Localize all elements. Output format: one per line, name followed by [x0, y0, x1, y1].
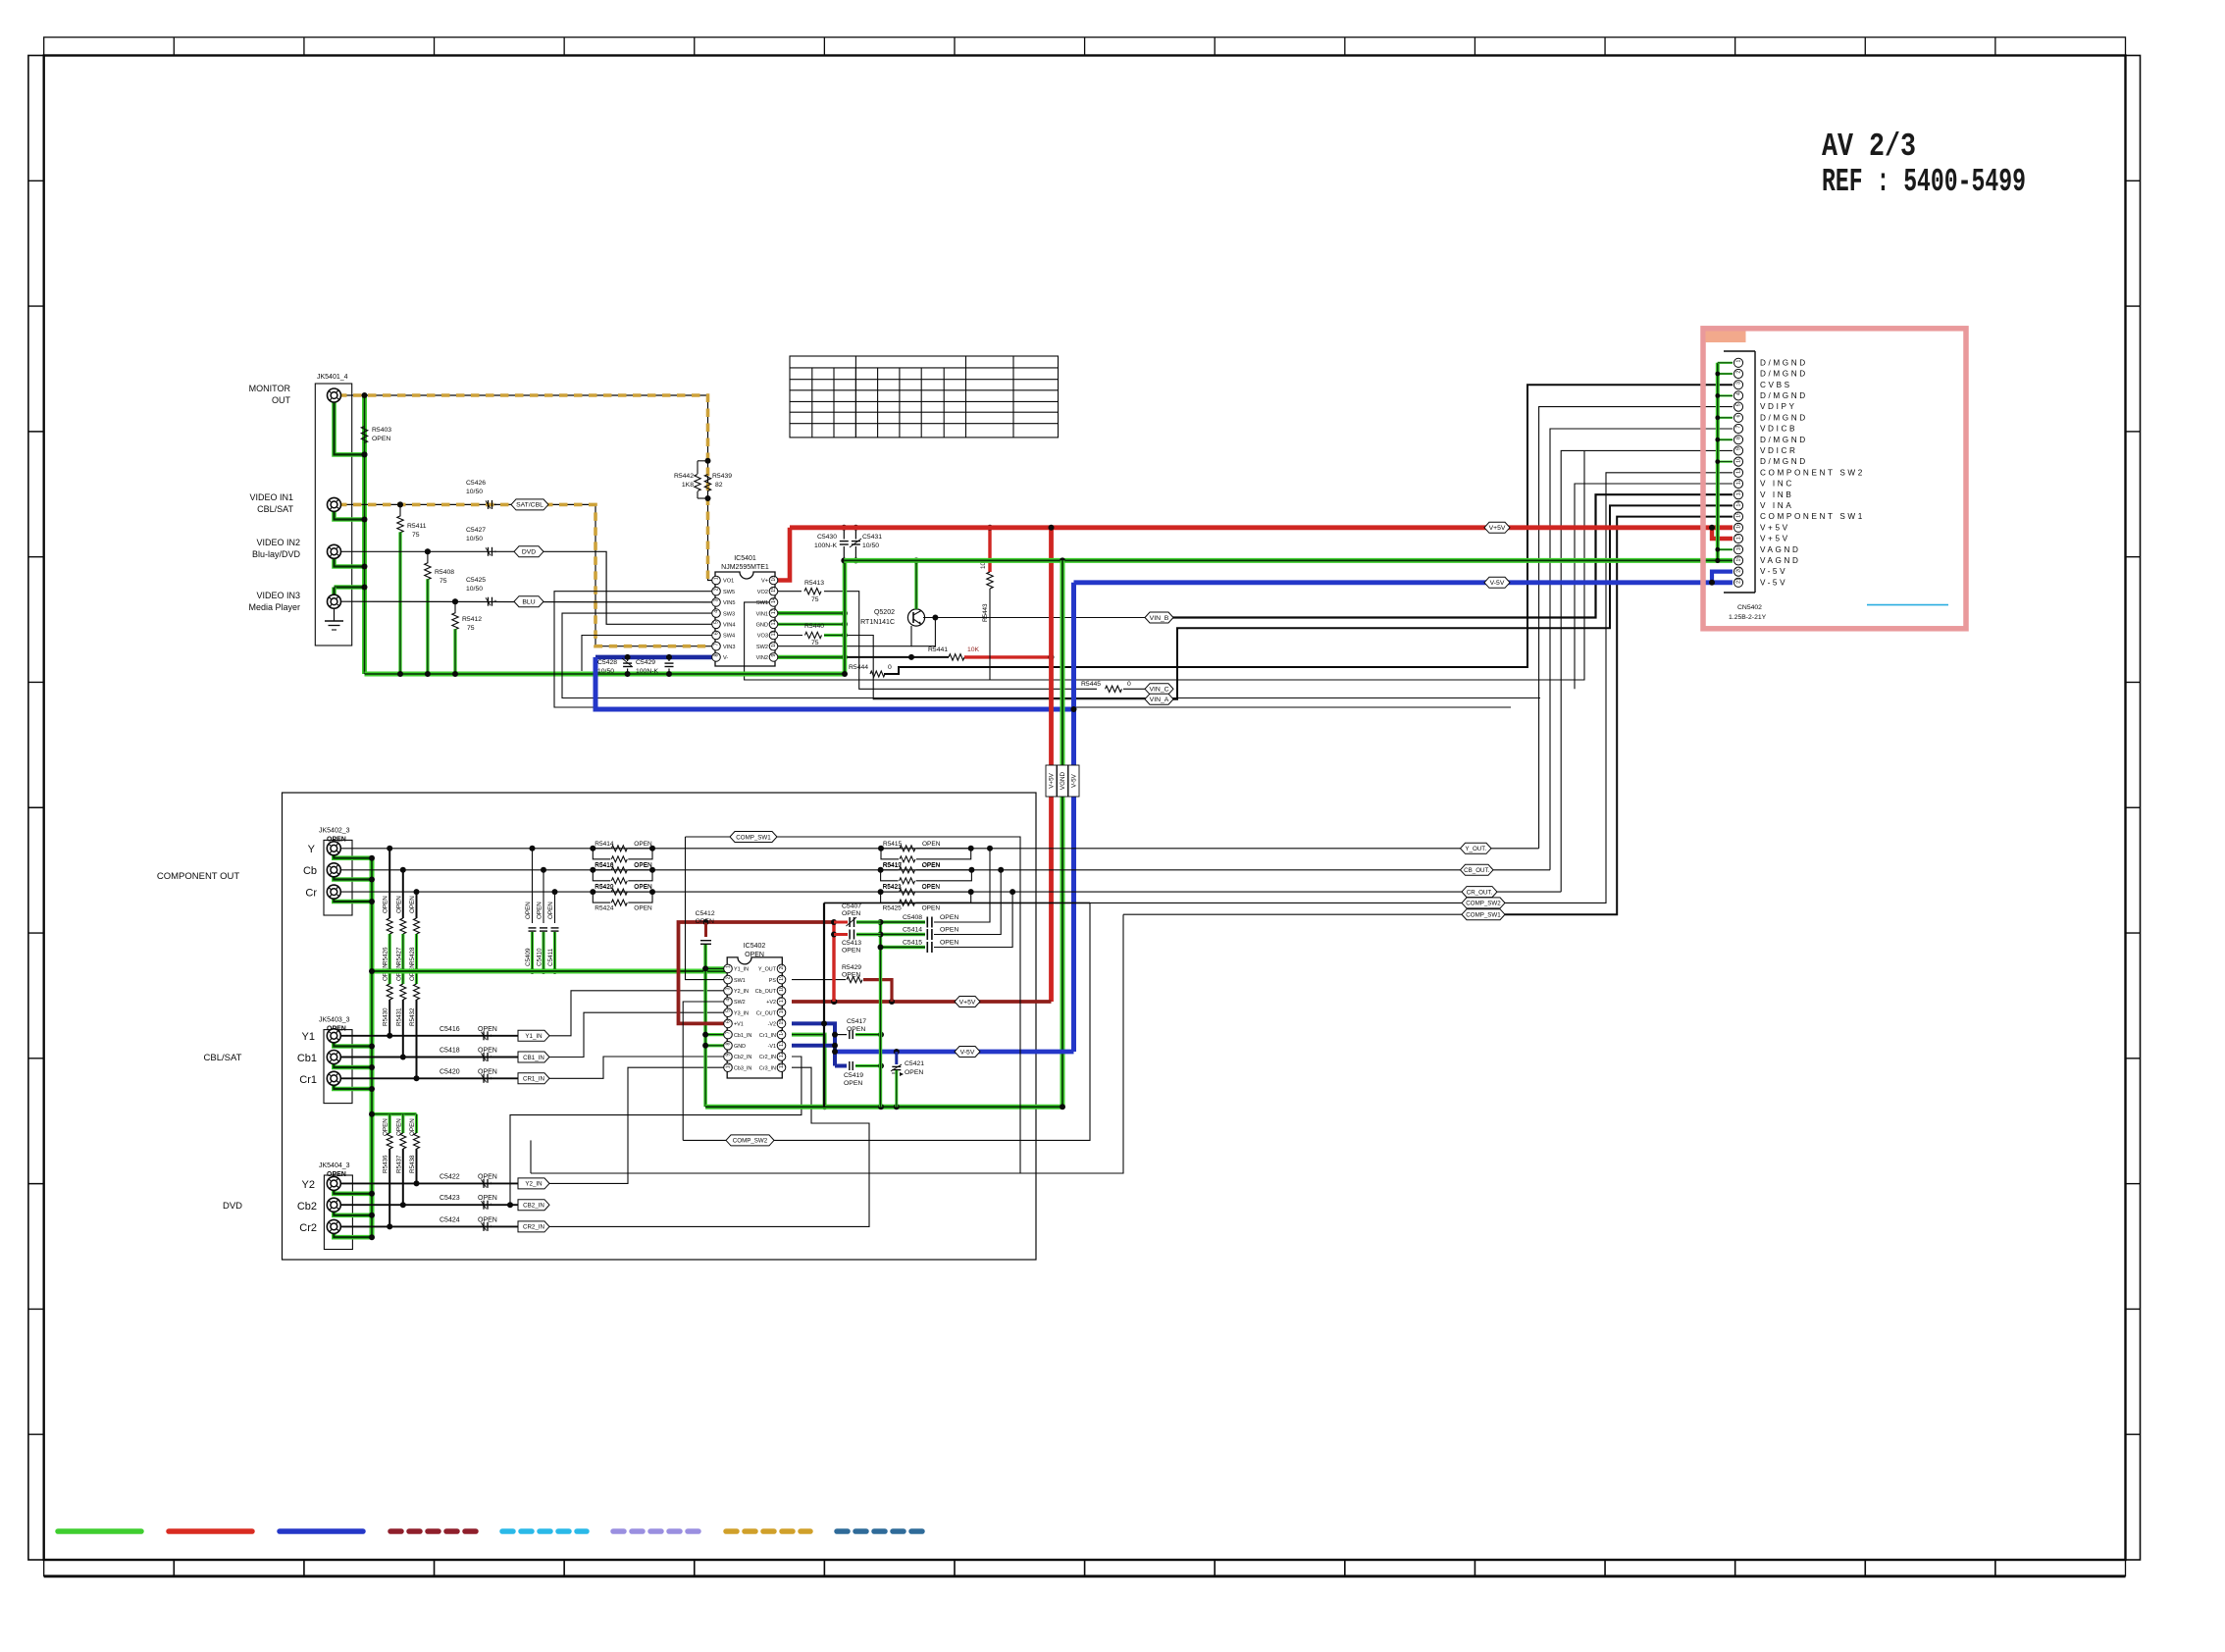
- svg-text:COMPONENT SW1: COMPONENT SW1: [1760, 512, 1865, 521]
- svg-text:Y2_IN: Y2_IN: [734, 989, 749, 995]
- svg-text:CVBS: CVBS: [1760, 381, 1792, 389]
- svg-text:14: 14: [1736, 501, 1742, 507]
- svg-text:RT1N141C: RT1N141C: [860, 619, 895, 626]
- svg-text:10/50: 10/50: [597, 668, 614, 675]
- svg-text:VO1: VO1: [723, 579, 734, 585]
- svg-text:COMP_SW2: COMP_SW2: [733, 1138, 768, 1145]
- svg-text:Cb_OUT: Cb_OUT: [755, 989, 777, 995]
- svg-text:Y: Y: [308, 844, 316, 855]
- svg-text:C5427: C5427: [466, 527, 486, 534]
- svg-text:V INC: V INC: [1760, 480, 1794, 489]
- svg-text:C5431: C5431: [862, 534, 882, 541]
- svg-text:R5441: R5441: [928, 646, 948, 653]
- svg-text:D/MGND: D/MGND: [1760, 358, 1808, 367]
- svg-text:C5429: C5429: [636, 659, 655, 666]
- svg-text:R5426: R5426: [383, 947, 389, 965]
- svg-text:18: 18: [779, 986, 785, 992]
- svg-text:OPEN: OPEN: [696, 918, 714, 925]
- svg-text:75: 75: [467, 625, 475, 632]
- svg-text:VDICB: VDICB: [1760, 425, 1797, 434]
- svg-text:C5413: C5413: [842, 940, 861, 947]
- svg-text:COMP_SW1: COMP_SW1: [736, 834, 771, 841]
- svg-text:-V2: -V2: [768, 1022, 776, 1028]
- svg-text:COMPONENT OUT: COMPONENT OUT: [157, 871, 239, 882]
- svg-text:1: 1: [714, 577, 720, 580]
- svg-text:C5419: C5419: [844, 1072, 863, 1079]
- svg-text:V+5V: V+5V: [1049, 772, 1056, 788]
- svg-text:8: 8: [1736, 437, 1742, 439]
- svg-text:16: 16: [1736, 523, 1742, 529]
- svg-text:Cr1_IN: Cr1_IN: [759, 1033, 776, 1039]
- svg-text:+: +: [490, 1033, 492, 1039]
- svg-text:C5417: C5417: [847, 1018, 866, 1025]
- svg-text:4: 4: [726, 999, 732, 1002]
- svg-text:C5426: C5426: [466, 480, 486, 487]
- svg-text:+: +: [490, 1224, 492, 1230]
- svg-text:+: +: [494, 549, 497, 555]
- svg-text:OUT: OUT: [272, 395, 291, 405]
- svg-text:OPEN: OPEN: [478, 1068, 497, 1075]
- svg-text:20: 20: [779, 964, 785, 970]
- svg-text:OPEN: OPEN: [922, 841, 941, 848]
- svg-text:OPEN: OPEN: [537, 902, 543, 919]
- svg-text:OPEN: OPEN: [634, 884, 652, 891]
- svg-text:Cr2_IN: Cr2_IN: [759, 1055, 776, 1060]
- svg-text:15: 15: [779, 1019, 785, 1025]
- svg-text:C5430: C5430: [817, 534, 837, 541]
- svg-text:CN5402: CN5402: [1737, 604, 1762, 611]
- svg-text:OPEN: OPEN: [395, 896, 402, 913]
- svg-text:OPEN: OPEN: [842, 948, 860, 955]
- svg-text:10: 10: [726, 1062, 732, 1068]
- svg-text:CR_OUT.: CR_OUT.: [1467, 889, 1493, 896]
- svg-text:1: 1: [726, 965, 732, 968]
- svg-text:VIDEO IN2: VIDEO IN2: [256, 538, 300, 547]
- svg-text:15: 15: [771, 587, 777, 593]
- svg-text:+V2: +V2: [766, 1000, 776, 1006]
- svg-text:R5429: R5429: [842, 964, 861, 971]
- svg-text:JK5401_4: JK5401_4: [317, 374, 348, 381]
- svg-text:100N-K: 100N-K: [636, 668, 659, 675]
- svg-text:C5428: C5428: [597, 659, 617, 666]
- svg-text:Cr: Cr: [305, 888, 317, 900]
- svg-text:JK5403_3: JK5403_3: [319, 1017, 350, 1024]
- svg-text:10: 10: [771, 642, 777, 647]
- svg-text:OPEN: OPEN: [634, 905, 652, 912]
- svg-text:Y2: Y2: [302, 1179, 315, 1191]
- svg-text:+: +: [490, 1203, 492, 1209]
- svg-text:4: 4: [1736, 392, 1742, 395]
- svg-text:Cb2: Cb2: [297, 1201, 317, 1213]
- svg-text:R5444: R5444: [849, 664, 868, 671]
- svg-text:C5412: C5412: [696, 910, 715, 917]
- svg-text:VO2: VO2: [757, 590, 768, 595]
- svg-text:+: +: [494, 599, 497, 605]
- svg-text:9: 9: [726, 1054, 732, 1057]
- svg-text:+: +: [490, 1181, 492, 1187]
- svg-text:V-5V: V-5V: [1490, 580, 1505, 587]
- svg-text:R5413: R5413: [804, 580, 824, 587]
- svg-text:R5439: R5439: [712, 473, 732, 480]
- svg-text:+: +: [490, 1076, 492, 1082]
- svg-text:IC5401: IC5401: [734, 555, 756, 562]
- svg-text:CB1_IN: CB1_IN: [523, 1055, 544, 1061]
- svg-text:C5414: C5414: [903, 927, 922, 934]
- svg-text:C5424: C5424: [440, 1216, 460, 1223]
- svg-text:D/MGND: D/MGND: [1760, 370, 1808, 379]
- svg-text:1.25B-2-21Y: 1.25B-2-21Y: [1729, 614, 1767, 621]
- svg-text:VIN3: VIN3: [723, 645, 735, 650]
- svg-text:SAT/CBL: SAT/CBL: [516, 502, 543, 509]
- svg-text:16: 16: [771, 576, 777, 582]
- svg-text:R5431: R5431: [395, 1007, 402, 1026]
- svg-text:75: 75: [440, 578, 447, 585]
- svg-text:0: 0: [888, 664, 892, 671]
- svg-text:12: 12: [771, 620, 777, 626]
- svg-text:Q5202: Q5202: [874, 609, 895, 616]
- svg-text:10: 10: [1736, 457, 1742, 463]
- svg-text:R5424: R5424: [595, 905, 614, 912]
- svg-text:VAGND: VAGND: [1760, 545, 1801, 554]
- svg-text:11: 11: [771, 631, 777, 636]
- svg-text:JK5402_3: JK5402_3: [319, 828, 350, 835]
- svg-text:Cb: Cb: [303, 865, 317, 877]
- svg-text:COMP_SW1: COMP_SW1: [1466, 912, 1501, 919]
- svg-text:C5421: C5421: [905, 1060, 924, 1067]
- svg-text:R5414: R5414: [595, 841, 614, 848]
- svg-text:Cr_OUT: Cr_OUT: [756, 1010, 777, 1016]
- svg-text:C5425: C5425: [466, 577, 486, 584]
- svg-text:OPEN: OPEN: [525, 902, 532, 919]
- svg-text:OPEN: OPEN: [634, 862, 652, 869]
- svg-text:VIDEO IN3: VIDEO IN3: [256, 591, 300, 600]
- svg-text:OPEN: OPEN: [478, 1216, 497, 1223]
- svg-text:SW1: SW1: [756, 600, 768, 606]
- svg-text:7: 7: [1736, 426, 1742, 429]
- svg-text:NJM2595MTE1: NJM2595MTE1: [721, 564, 769, 571]
- svg-text:R5415: R5415: [883, 841, 903, 848]
- svg-text:VIN_A: VIN_A: [1150, 697, 1169, 703]
- svg-text:82: 82: [715, 482, 723, 489]
- svg-text:CBL/SAT: CBL/SAT: [204, 1053, 242, 1063]
- svg-text:R5419: R5419: [883, 862, 903, 869]
- svg-text:14: 14: [771, 597, 777, 603]
- svg-text:R5425: R5425: [883, 905, 903, 912]
- svg-text:R5437: R5437: [395, 1155, 402, 1173]
- svg-text:SW1: SW1: [734, 978, 746, 984]
- svg-text:C5416: C5416: [440, 1026, 460, 1033]
- svg-text:SW5: SW5: [723, 590, 735, 595]
- svg-text:R5445: R5445: [1081, 681, 1101, 688]
- svg-text:D/MGND: D/MGND: [1760, 391, 1808, 400]
- svg-text:VIN5: VIN5: [723, 600, 735, 606]
- svg-text:C5418: C5418: [440, 1048, 460, 1055]
- svg-text:GND: GND: [734, 1044, 746, 1050]
- svg-text:2: 2: [714, 588, 720, 591]
- svg-text:CB_OUT.: CB_OUT.: [1464, 867, 1489, 874]
- svg-text:17: 17: [1736, 534, 1742, 540]
- svg-text:3: 3: [726, 987, 732, 990]
- svg-text:SW3: SW3: [723, 611, 735, 617]
- svg-text:OPEN: OPEN: [745, 952, 764, 958]
- svg-text:+V1: +V1: [734, 1022, 744, 1028]
- svg-text:+: +: [494, 502, 497, 508]
- svg-text:2: 2: [1736, 371, 1742, 374]
- svg-text:9: 9: [1736, 447, 1742, 450]
- svg-text:OPEN: OPEN: [940, 914, 958, 921]
- svg-text:V+5V: V+5V: [1489, 525, 1506, 532]
- svg-text:21: 21: [1736, 578, 1742, 584]
- svg-text:OPEN: OPEN: [547, 902, 554, 919]
- svg-text:OPEN: OPEN: [478, 1195, 497, 1202]
- svg-text:CB2_IN: CB2_IN: [523, 1203, 544, 1210]
- svg-text:C5422: C5422: [440, 1173, 460, 1180]
- svg-text:Blu-lay/DVD: Blu-lay/DVD: [252, 549, 301, 559]
- svg-text:V-5V: V-5V: [960, 1049, 975, 1056]
- svg-text:Y3_IN: Y3_IN: [734, 1010, 749, 1016]
- svg-text:6: 6: [1736, 414, 1742, 417]
- svg-text:CR1_IN: CR1_IN: [523, 1076, 544, 1083]
- svg-text:V-5V: V-5V: [1760, 567, 1787, 576]
- svg-text:D/MGND: D/MGND: [1760, 436, 1808, 444]
- svg-text:OPEN: OPEN: [634, 841, 652, 848]
- svg-text:R5412: R5412: [462, 616, 482, 623]
- svg-text:R5422: R5422: [595, 884, 614, 891]
- svg-text:5: 5: [726, 1009, 732, 1012]
- svg-text:R5430: R5430: [383, 1007, 389, 1026]
- svg-text:16: 16: [779, 1007, 785, 1013]
- svg-text:1: 1: [1736, 359, 1742, 362]
- svg-text:VO3: VO3: [757, 634, 768, 640]
- svg-text:Y_OUT: Y_OUT: [758, 967, 777, 973]
- svg-text:Media Player: Media Player: [248, 602, 300, 612]
- svg-text:V-: V-: [723, 655, 728, 661]
- svg-text:Cr1: Cr1: [299, 1074, 317, 1086]
- svg-text:R5442: R5442: [674, 473, 694, 480]
- svg-text:11: 11: [1736, 468, 1742, 473]
- svg-text:Cb1_IN: Cb1_IN: [734, 1033, 751, 1039]
- svg-text:OPEN: OPEN: [372, 436, 390, 442]
- svg-text:VIN4: VIN4: [723, 623, 735, 629]
- svg-text:OPEN: OPEN: [478, 1048, 497, 1055]
- svg-text:SW2: SW2: [756, 645, 768, 650]
- svg-text:OPEN: OPEN: [478, 1026, 497, 1033]
- svg-text:OPEN: OPEN: [922, 884, 941, 891]
- svg-text:R5432: R5432: [409, 1007, 416, 1026]
- svg-text:12: 12: [779, 1052, 785, 1058]
- svg-text:OPEN: OPEN: [940, 927, 958, 934]
- svg-text:BLU: BLU: [522, 599, 535, 606]
- svg-text:AV 2/3: AV 2/3: [1822, 129, 1916, 165]
- svg-text:C5409: C5409: [525, 948, 532, 966]
- svg-text:Cb3_IN: Cb3_IN: [734, 1065, 751, 1071]
- svg-text:OPEN: OPEN: [383, 896, 389, 913]
- svg-text:3: 3: [714, 599, 720, 602]
- svg-text:19: 19: [1736, 556, 1742, 562]
- svg-text:C5415: C5415: [903, 940, 922, 947]
- svg-text:OPEN: OPEN: [842, 910, 860, 917]
- svg-text:Cb2_IN: Cb2_IN: [734, 1055, 751, 1060]
- svg-text:VAGND: VAGND: [1760, 556, 1801, 565]
- svg-text:11: 11: [779, 1063, 785, 1068]
- svg-text:Y1_IN: Y1_IN: [734, 967, 749, 973]
- svg-text:Cb1: Cb1: [297, 1053, 317, 1064]
- svg-text:13: 13: [771, 608, 777, 614]
- svg-text:SW2: SW2: [734, 1000, 746, 1006]
- svg-text:OPEN: OPEN: [940, 940, 958, 947]
- svg-text:6: 6: [726, 1020, 732, 1023]
- svg-text:9: 9: [771, 654, 777, 657]
- svg-text:C5411: C5411: [547, 948, 554, 966]
- svg-text:R5418: R5418: [595, 862, 614, 869]
- svg-text:0: 0: [1127, 681, 1131, 688]
- svg-text:R5438: R5438: [409, 1155, 416, 1173]
- svg-text:VDIPY: VDIPY: [1760, 402, 1797, 411]
- svg-text:10/50: 10/50: [466, 536, 483, 542]
- svg-text:15: 15: [1736, 512, 1742, 518]
- svg-text:R5443: R5443: [982, 603, 989, 622]
- svg-text:V+: V+: [761, 579, 768, 585]
- svg-text:1K8: 1K8: [682, 482, 694, 489]
- svg-text:3: 3: [1736, 382, 1742, 385]
- svg-text:8: 8: [714, 654, 720, 657]
- svg-text:10/50: 10/50: [466, 489, 483, 495]
- svg-text:OPEN: OPEN: [905, 1069, 923, 1076]
- svg-text:SW4: SW4: [723, 634, 735, 640]
- svg-text:CBL/SAT: CBL/SAT: [257, 504, 293, 514]
- svg-text:OPEN: OPEN: [922, 862, 941, 869]
- svg-text:V INA: V INA: [1760, 501, 1793, 510]
- svg-text:C5408: C5408: [903, 914, 922, 921]
- svg-text:MONITOR: MONITOR: [249, 384, 291, 393]
- svg-text:V-5V: V-5V: [1071, 773, 1078, 787]
- svg-text:OPEN: OPEN: [478, 1173, 497, 1180]
- svg-text:V-5V: V-5V: [1760, 578, 1787, 587]
- svg-text:CR2_IN: CR2_IN: [523, 1224, 544, 1231]
- svg-text:Cr3_IN: Cr3_IN: [759, 1065, 776, 1071]
- svg-text:VDICR: VDICR: [1760, 446, 1797, 455]
- svg-text:C5420: C5420: [440, 1068, 460, 1075]
- svg-text:19: 19: [779, 975, 785, 981]
- svg-text:OPEN: OPEN: [842, 972, 860, 979]
- svg-text:Y2_IN: Y2_IN: [525, 1181, 542, 1188]
- svg-text:R5408: R5408: [435, 569, 454, 576]
- svg-text:8: 8: [726, 1042, 732, 1045]
- svg-text:V+5V: V+5V: [1760, 523, 1790, 532]
- svg-text:IC5402: IC5402: [744, 943, 766, 950]
- svg-text:DVD: DVD: [223, 1201, 242, 1212]
- svg-text:Y_OUT.: Y_OUT.: [1465, 846, 1486, 852]
- svg-text:V+5V: V+5V: [1760, 535, 1790, 543]
- svg-text:14: 14: [779, 1030, 785, 1036]
- svg-text:13: 13: [779, 1041, 785, 1047]
- svg-text:75: 75: [412, 532, 420, 539]
- svg-text:VIN1: VIN1: [756, 611, 768, 617]
- svg-text:C5423: C5423: [440, 1195, 460, 1202]
- svg-text:GND: GND: [756, 623, 768, 629]
- svg-text:20: 20: [1736, 567, 1742, 573]
- svg-text:V INB: V INB: [1760, 490, 1793, 499]
- svg-text:Y1_IN: Y1_IN: [525, 1033, 542, 1040]
- svg-text:75: 75: [811, 596, 819, 603]
- svg-text:VIN2: VIN2: [756, 655, 768, 661]
- svg-text:D/MGND: D/MGND: [1760, 457, 1808, 466]
- svg-text:VIN_B: VIN_B: [1150, 615, 1169, 622]
- svg-text:10/50: 10/50: [466, 586, 483, 593]
- svg-text:COMPONENT SW2: COMPONENT SW2: [1760, 468, 1865, 477]
- svg-text:7: 7: [714, 643, 720, 645]
- svg-text:PS: PS: [769, 978, 777, 984]
- svg-text:OPEN: OPEN: [847, 1026, 865, 1033]
- svg-text:D/MGND: D/MGND: [1760, 413, 1808, 422]
- svg-text:OPEN: OPEN: [922, 905, 941, 912]
- svg-text:V+5V: V+5V: [959, 999, 976, 1006]
- svg-text:OPEN: OPEN: [409, 896, 416, 913]
- svg-text:5: 5: [1736, 403, 1742, 406]
- svg-text:10/50: 10/50: [862, 542, 879, 549]
- svg-text:JK5404_3: JK5404_3: [319, 1162, 350, 1169]
- svg-text:VGND: VGND: [1060, 771, 1066, 790]
- svg-text:10K: 10K: [967, 646, 980, 653]
- svg-text:OPEN: OPEN: [844, 1080, 862, 1087]
- svg-text:VIN_C: VIN_C: [1149, 687, 1168, 694]
- svg-text:2: 2: [726, 976, 732, 979]
- svg-text:R5436: R5436: [383, 1155, 389, 1173]
- svg-text:18: 18: [1736, 544, 1742, 550]
- svg-text:100N-K: 100N-K: [814, 542, 838, 549]
- svg-text:VIDEO IN1: VIDEO IN1: [249, 492, 293, 502]
- svg-text:12: 12: [1736, 479, 1742, 485]
- svg-text:+: +: [490, 1055, 492, 1060]
- svg-text:5: 5: [714, 621, 720, 624]
- svg-text:13: 13: [1736, 490, 1742, 495]
- svg-text:Cr2: Cr2: [299, 1222, 317, 1234]
- svg-text:4: 4: [714, 610, 720, 613]
- svg-text:Y1: Y1: [302, 1031, 315, 1043]
- svg-text:REF : 5400-5499: REF : 5400-5499: [1822, 164, 2026, 200]
- svg-text:C5407: C5407: [842, 903, 861, 910]
- svg-text:R5403: R5403: [372, 427, 391, 434]
- svg-text:-V1: -V1: [768, 1044, 776, 1050]
- svg-text:R5423: R5423: [883, 884, 903, 891]
- svg-text:DVD: DVD: [522, 549, 536, 556]
- svg-text:7: 7: [726, 1031, 732, 1034]
- svg-text:R5427: R5427: [395, 947, 402, 965]
- svg-text:COMP_SW2: COMP_SW2: [1466, 901, 1501, 907]
- svg-text:R5411: R5411: [407, 523, 427, 530]
- svg-text:6: 6: [714, 632, 720, 635]
- svg-text:R5440: R5440: [804, 623, 824, 630]
- svg-text:C5410: C5410: [537, 948, 543, 966]
- svg-text:17: 17: [779, 997, 785, 1003]
- svg-text:R5428: R5428: [409, 947, 416, 965]
- svg-text:75: 75: [811, 640, 819, 646]
